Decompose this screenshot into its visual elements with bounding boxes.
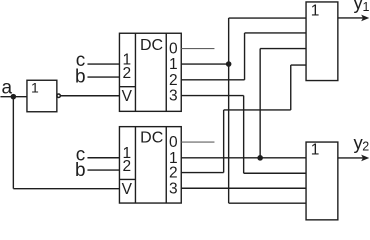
wire DC1 output 1: [181, 63, 228, 65]
or-gate OR2 box: [306, 142, 338, 220]
wire net a vertical down: [12, 97, 14, 189]
decoder DC2 box: [119, 127, 181, 203]
svg-text:1: 1: [311, 142, 320, 159]
svg-text:2: 2: [169, 165, 178, 182]
svg-text:1: 1: [363, 0, 370, 14]
wire DC2 output 2: [181, 172, 223, 174]
junction dot DC2 output 1: [257, 155, 263, 161]
wire net DC1-3 to OR2 input 2: [244, 172, 306, 174]
wire net DC2-1 to OR1 input C: [260, 48, 306, 50]
svg-text:V: V: [122, 88, 133, 105]
junction dot DC1 output 1: [226, 61, 232, 67]
wire b to DC2 pin 2: [87, 169, 119, 171]
svg-text:DC: DC: [140, 129, 163, 146]
svg-text:2: 2: [122, 65, 131, 82]
wire DC2 output 1 to OR2 input 1: [181, 157, 306, 159]
svg-text:V: V: [122, 181, 133, 198]
wire vertical net DC1-3: [243, 96, 245, 174]
wire vertical net DC2-2 rise: [223, 110, 225, 173]
wire c to DC2 pin 1: [87, 157, 119, 159]
arrowhead y1: [361, 15, 369, 22]
wire vertical net DC1-1: [228, 18, 230, 203]
svg-text:b: b: [75, 160, 86, 181]
wire net DC1-1 to OR2 input 4: [229, 202, 306, 204]
decoder DC2 left column divider: [134, 127, 136, 203]
svg-text:0: 0: [169, 134, 178, 151]
svg-text:0: 0: [169, 41, 178, 58]
wire DC2 output 3 to OR2 input 3: [181, 187, 306, 189]
wire vertical net DC2-2 to OR1: [290, 65, 292, 110]
wire OR2 output y2: [338, 157, 363, 159]
svg-text:2: 2: [122, 158, 131, 175]
wire net DC2-2 horizontal jog: [224, 109, 291, 111]
svg-text:2: 2: [169, 72, 178, 89]
decoder DC1 left column divider: [134, 33, 136, 111]
svg-text:1: 1: [169, 56, 178, 73]
wire net a to DC2 V input: [13, 188, 119, 190]
decoder DC1 box: [119, 33, 181, 111]
wire vertical net DC2-1: [259, 49, 261, 158]
wire c to DC1 pin 1: [87, 63, 119, 65]
svg-text:1: 1: [311, 3, 320, 20]
wire net DC2-2 to OR1 input D: [291, 64, 306, 66]
inverter U1 box: [27, 80, 57, 112]
wire DC1 output 3: [181, 95, 243, 97]
svg-text:a: a: [2, 77, 13, 98]
inverter U1 output bubble: [57, 94, 60, 97]
svg-text:1: 1: [31, 79, 39, 95]
svg-text:2: 2: [362, 140, 369, 154]
or-gate OR1 box: [306, 2, 338, 81]
decoder DC1 right column divider: [165, 33, 167, 111]
decoder DC1 separator under pin 2: [119, 86, 135, 88]
svg-text:3: 3: [169, 180, 178, 197]
arrowhead y2: [361, 155, 369, 162]
junction dot on net a: [11, 94, 17, 100]
svg-text:b: b: [75, 66, 86, 87]
wire OR1 output y1: [338, 17, 363, 19]
wire net DC1-2 to OR1 input B: [245, 32, 307, 34]
wire DC1 output 2: [181, 79, 244, 81]
wire DC2 output 0 stub: [181, 141, 214, 143]
wire vertical net DC1-2: [244, 33, 246, 80]
svg-text:3: 3: [169, 88, 178, 105]
decoder DC2 right column divider: [165, 127, 167, 203]
wire DC1 output 0 stub: [181, 48, 214, 50]
node a input wire: [0, 96, 27, 98]
wire net DC1-1 to OR1 input A: [229, 17, 306, 19]
decoder DC2 separator under pin 2: [119, 178, 135, 180]
wire inverter output to DC1 V input: [61, 95, 120, 97]
wire b to DC1 pin 2: [87, 76, 119, 78]
svg-text:DC: DC: [140, 37, 163, 54]
